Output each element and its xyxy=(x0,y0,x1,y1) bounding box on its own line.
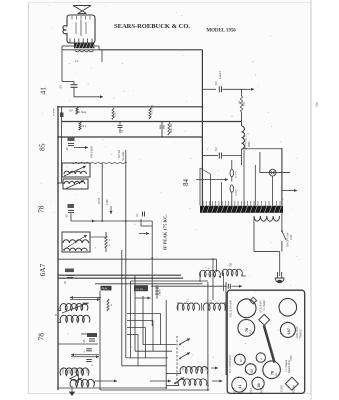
svg-text:R.F. CONTROL: R.F. CONTROL xyxy=(228,354,232,373)
svg-text:COIL OSC.: COIL OSC. xyxy=(295,325,299,338)
svg-text:.05: .05 xyxy=(59,85,63,89)
svg-text:78: 78 xyxy=(271,371,275,375)
svg-text:E 2: E 2 xyxy=(83,124,87,128)
svg-text:I.F. Outpd: I.F. Outpd xyxy=(263,300,266,311)
svg-text:OSC: OSC xyxy=(290,355,293,361)
svg-text:85: 85 xyxy=(38,143,47,151)
svg-text:6A7: 6A7 xyxy=(234,387,237,392)
svg-text:45 MFD: 45 MFD xyxy=(54,108,56,116)
svg-text:8.0: 8.0 xyxy=(214,147,218,151)
svg-text:8.0: 8.0 xyxy=(214,81,218,85)
svg-text:R.F.: R.F. xyxy=(249,329,253,334)
svg-text:No-Gain: No-Gain xyxy=(122,151,125,161)
svg-text:ANT: ANT xyxy=(261,388,264,393)
svg-text:TETRA: TETRA xyxy=(118,149,121,158)
svg-text:25,000: 25,000 xyxy=(236,171,238,178)
svg-text:OSC: OSC xyxy=(242,387,245,393)
svg-text:78: 78 xyxy=(37,333,46,341)
svg-text:VOL 1M: VOL 1M xyxy=(135,289,143,291)
svg-text:84: 84 xyxy=(250,369,254,373)
svg-text:5M: 5M xyxy=(231,263,233,266)
svg-text:84: 84 xyxy=(182,179,190,187)
svg-text:78: 78 xyxy=(245,328,249,332)
svg-text:80: 80 xyxy=(257,383,261,387)
svg-text:45 M: 45 M xyxy=(97,198,101,204)
svg-text:IF PEAK 175 KC.: IF PEAK 175 KC. xyxy=(162,214,167,250)
svg-text:6A7: 6A7 xyxy=(287,328,291,334)
svg-text:6,20M: 6,20M xyxy=(293,386,296,393)
svg-text:56a: 56a xyxy=(315,101,319,107)
svg-text:SEARS-ROEBUCK & CO.: SEARS-ROEBUCK & CO. xyxy=(114,23,190,30)
svg-text:6110: 6110 xyxy=(115,111,117,117)
svg-text:6A7: 6A7 xyxy=(38,263,47,276)
svg-text:10,000: 10,000 xyxy=(236,189,238,196)
svg-text:600: 600 xyxy=(243,101,246,106)
svg-text:ELECT: ELECT xyxy=(218,70,222,79)
svg-text:I.F.: I.F. xyxy=(274,372,278,376)
svg-text:S.20M: S.20M xyxy=(281,385,284,392)
svg-text:C: C xyxy=(91,364,94,366)
svg-text:I.F. & B.W.: I.F. & B.W. xyxy=(259,301,263,313)
svg-text:41: 41 xyxy=(39,87,48,95)
svg-text:D: D xyxy=(55,313,57,317)
svg-text:1 Meg: 1 Meg xyxy=(79,110,87,114)
svg-text:PEAK: PEAK xyxy=(102,287,109,290)
svg-text:115V: 115V xyxy=(290,234,293,240)
svg-text:2500: 2500 xyxy=(248,141,251,147)
svg-text:.05: .05 xyxy=(65,147,69,151)
svg-text:.1 MF: .1 MF xyxy=(105,199,109,206)
svg-text:VOL & ON-SW: VOL & ON-SW xyxy=(229,300,233,318)
svg-text:TRANS.: TRANS. xyxy=(299,329,303,339)
svg-text:1 MEG: 1 MEG xyxy=(160,289,162,296)
svg-text:MODEL 1956: MODEL 1956 xyxy=(207,29,237,34)
svg-text:DET: DET xyxy=(250,388,253,393)
svg-text:78: 78 xyxy=(37,205,46,213)
svg-text:PRI PEAK: PRI PEAK xyxy=(90,146,94,158)
svg-text:Bias 1W: Bias 1W xyxy=(170,123,173,133)
svg-text:Transformer: Transformer xyxy=(288,360,291,374)
svg-text:A.F.: A.F. xyxy=(69,109,74,113)
svg-text:E .1Meg: E .1Meg xyxy=(151,104,154,114)
svg-text:.05: .05 xyxy=(65,214,69,218)
